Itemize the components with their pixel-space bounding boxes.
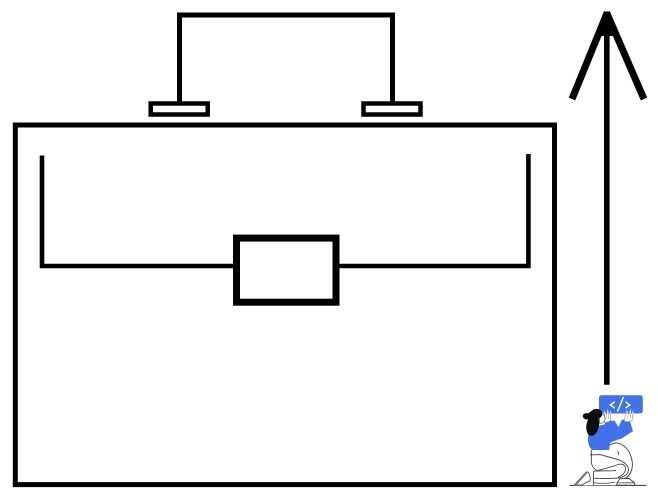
code sign glyph / — [617, 397, 623, 411]
briefcase flap — [42, 154, 528, 266]
code sign glyph > — [625, 402, 630, 408]
arrow head apex fill — [598, 11, 617, 36]
front shoe sole line — [576, 473, 587, 485]
knee fold tick — [617, 451, 618, 455]
near fingertips on sign — [604, 409, 611, 414]
arrow head right arm — [607, 13, 645, 100]
ground line — [570, 484, 647, 486]
arrow shaft — [604, 28, 610, 385]
hip left edge — [591, 450, 599, 471]
front shoe — [574, 472, 590, 485]
briefcase body — [15, 125, 554, 485]
heel bump line — [594, 482, 615, 483]
thigh hump outline — [608, 443, 632, 468]
knee vertical line — [592, 471, 594, 485]
handle right foot — [364, 104, 421, 115]
far fingertips on sign — [626, 408, 633, 414]
person hair — [583, 409, 602, 436]
shin top line — [594, 470, 616, 472]
code sign glyph < — [610, 402, 615, 408]
back shoe sole line — [617, 482, 635, 484]
person torso and arms — [588, 420, 633, 451]
near finger lines — [606, 414, 609, 420]
briefcase handle — [180, 15, 393, 106]
briefcase clasp — [237, 238, 337, 302]
person legs silhouette — [574, 443, 636, 486]
far finger lines — [628, 414, 631, 419]
handle left foot — [151, 104, 208, 115]
back shoe — [617, 478, 635, 485]
calf inner curl — [599, 464, 626, 477]
waist line and leg S swoosh — [590, 455, 628, 479]
far palm — [624, 414, 632, 422]
person face — [600, 414, 606, 423]
near palm — [604, 414, 611, 423]
arrow head left arm — [572, 13, 607, 100]
code sign — [599, 395, 643, 413]
calf outer curl — [624, 468, 633, 479]
